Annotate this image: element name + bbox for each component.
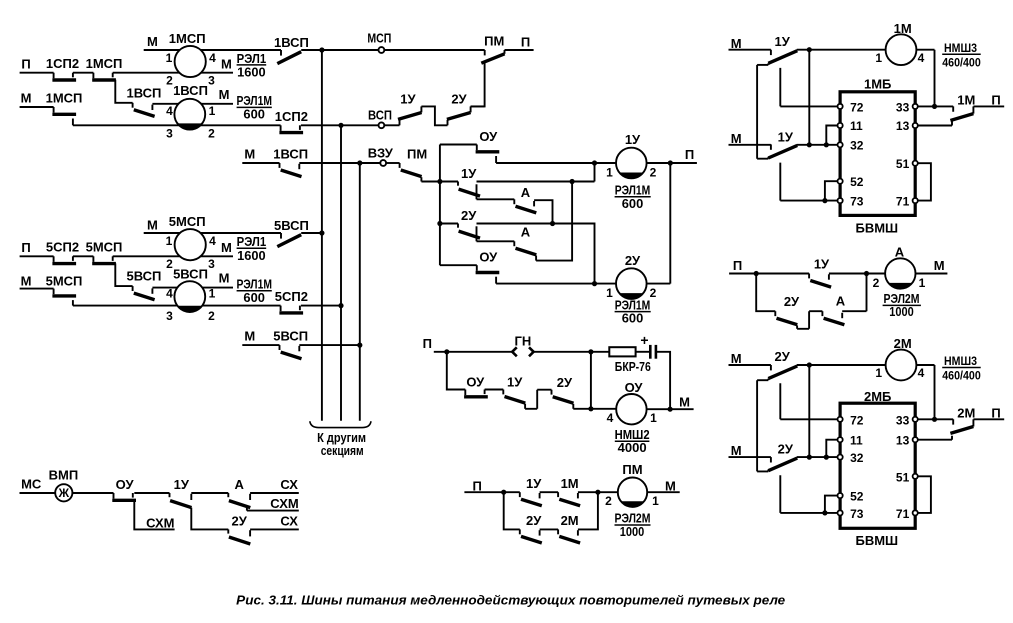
wire riser ГН row to relay ОУ row [590, 352, 592, 409]
svg-text:РЭЛ2М: РЭЛ2М [615, 512, 651, 526]
relay 1У coil (slow) [616, 148, 647, 179]
wire П row 1СП2/1МСП [20, 72, 54, 74]
svg-text:1У: 1У [625, 132, 641, 147]
wire МСП bus row to terminal [322, 49, 378, 51]
wire 1У upper branch to relay riser [477, 181, 595, 183]
wire 2У to 2М [540, 528, 559, 530]
svg-text:БКР-76: БКР-76 [615, 360, 651, 374]
wire pin 33 row block2 [915, 419, 953, 424]
svg-text:+: + [640, 332, 648, 348]
wire rail stub lower block2 [757, 470, 768, 472]
wire ПМ contact to ladder feed node [421, 181, 440, 183]
svg-text:РЭЛ1: РЭЛ1 [237, 52, 267, 66]
bus ВЗУ vertical [359, 163, 361, 421]
svg-text:1У: 1У [400, 92, 416, 107]
svg-text:М: М [731, 351, 742, 366]
wire П line block 2МБ [973, 418, 1004, 420]
svg-text:ОУ: ОУ [625, 380, 644, 395]
fraction bar РЭЛ1/1600 g5 [237, 247, 267, 249]
wire ВСП bus row to terminal [341, 124, 378, 126]
svg-text:А: А [521, 225, 531, 240]
contact 1МСП (closed, М row) [52, 107, 76, 125]
svg-text:МСП: МСП [367, 31, 391, 46]
node bus ВЗУ row 1 [357, 160, 362, 165]
node pin 33 row [932, 104, 937, 109]
wire М row 1МСП [20, 106, 54, 108]
node relay ПМ input [595, 490, 600, 495]
svg-text:1: 1 [875, 51, 882, 65]
svg-text:М: М [221, 240, 232, 255]
contact 2У (transfer) ladder [458, 224, 480, 242]
svg-text:ОУ: ОУ [479, 129, 498, 144]
pin 51 block 1МБ [913, 161, 918, 166]
wire М row to 2У upper contact [729, 364, 771, 366]
svg-text:1: 1 [209, 287, 216, 301]
wire М 5ВСП row [242, 344, 279, 346]
svg-text:П: П [21, 240, 30, 255]
svg-text:НМШ3: НМШ3 [944, 354, 977, 368]
wire А exit to riser [842, 274, 866, 312]
wire 1МСП contact to coil pin 2 and М terminal [113, 72, 233, 74]
contact ОУ (closed) МС row [112, 493, 136, 500]
contact ОУ (closed) ГН row [464, 390, 488, 397]
svg-text:М: М [21, 274, 32, 289]
wire 1ВСП contact to bus ВЗУ [299, 162, 360, 164]
node relay 2У input [592, 281, 597, 286]
svg-text:1МСП: 1МСП [86, 56, 123, 71]
node pin 32 row a [807, 142, 812, 147]
svg-text:4: 4 [918, 51, 925, 65]
wire А lower to СХМ [247, 507, 299, 510]
wire МС to lamp ВМП [20, 492, 114, 494]
svg-text:4: 4 [166, 104, 173, 118]
node П rail relay 1У [668, 160, 673, 165]
svg-text:М: М [244, 147, 255, 162]
wire МСП terminal to ПМ contact [385, 49, 485, 51]
wire 2М to riser [578, 492, 598, 529]
svg-text:СХМ: СХМ [270, 496, 298, 511]
fraction bar РЭЛ1М/600 relay 1У [615, 196, 651, 198]
wire 1У armature to relay 1М row [797, 49, 886, 51]
contact ПМ (transfer) on МСП row [481, 50, 504, 63]
node ladder feed [437, 179, 442, 184]
svg-text:3: 3 [166, 127, 173, 141]
wire П to ПМ block [464, 491, 519, 493]
svg-text:ПМ: ПМ [484, 34, 504, 49]
wire pin 11 link block2 [826, 440, 840, 457]
wire П to ГН row [434, 351, 512, 353]
pin 33 block 2МБ [913, 417, 918, 422]
svg-text:ПМ: ПМ [407, 146, 427, 161]
svg-text:М: М [731, 36, 742, 51]
svg-text:2МБ: 2МБ [864, 389, 891, 404]
wire 5ВСП contact to bus МСП [301, 232, 322, 234]
fraction bar РЭЛ2М/1000 А [883, 304, 921, 306]
svg-text:Рис. 3.11. Шины питания медлен: Рис. 3.11. Шины питания медленнодействую… [236, 593, 785, 608]
svg-text:П: П [473, 478, 482, 493]
node bus МСП row 5 [319, 230, 324, 235]
svg-text:3: 3 [166, 309, 173, 323]
svg-text:52: 52 [850, 490, 864, 504]
pin 33 block 1МБ [913, 104, 918, 109]
contact 5ВСП (front) to МСП bus [277, 233, 301, 247]
svg-text:1ВСП: 1ВСП [126, 85, 161, 100]
node bus МСП row 1 [319, 47, 324, 52]
svg-text:ВМП: ВМП [49, 467, 79, 482]
svg-text:460/400: 460/400 [942, 55, 981, 69]
contact А (back) upper ladder [514, 199, 536, 213]
svg-text:1У: 1У [461, 166, 477, 181]
pin 52 block 1МБ [838, 179, 843, 184]
fraction bar РЭЛ1М/600 g5 [237, 290, 272, 292]
wire pin 51 to pin 71 bracket block2 [915, 476, 931, 513]
svg-text:2У: 2У [526, 513, 542, 528]
wire ОУ branch to СХМ stub [134, 501, 174, 529]
svg-text:П: П [991, 92, 1000, 107]
wire А exit up to 1У branch [536, 182, 572, 261]
contact 1У (transfer) lower block 1МБ [768, 144, 797, 158]
wire А exit down to 2У row [534, 200, 552, 223]
svg-text:РЭЛ1М: РЭЛ1М [236, 278, 272, 292]
relay 2М coil [886, 350, 917, 381]
svg-text:А: А [521, 185, 531, 200]
svg-text:71: 71 [896, 507, 910, 521]
svg-text:5СП2: 5СП2 [275, 289, 308, 304]
svg-text:М: М [21, 90, 32, 105]
svg-text:600: 600 [243, 107, 265, 121]
svg-text:51: 51 [896, 157, 910, 171]
wire to ОУ contact lower [440, 264, 477, 266]
wire М row to 1У upper contact [729, 49, 771, 51]
wire ВСП terminal to 1У contact [385, 124, 400, 126]
wire ВЗУ terminal to ПМ contact [387, 162, 400, 164]
wire relay ПМ to М terminal [647, 491, 680, 493]
svg-text:1ВСП: 1ВСП [173, 83, 208, 98]
svg-text:600: 600 [243, 291, 265, 305]
svg-text:4000: 4000 [618, 441, 647, 455]
svg-text:71: 71 [896, 195, 910, 209]
svg-text:2У: 2У [232, 513, 248, 528]
resistor БКР-76 box [609, 347, 635, 356]
wire armature stub to rail block2 [757, 379, 768, 381]
wire capacitor to М rail [656, 352, 670, 409]
svg-text:М: М [934, 258, 945, 273]
wire ПМ back contact down to 2У [471, 63, 485, 106]
fraction bar РЭЛ1/1600 [237, 64, 267, 66]
contact 1У (transfer) upper block 1МБ [768, 50, 797, 65]
svg-text:5МСП: 5МСП [86, 239, 123, 254]
wire М row 2 to 2У lower contact [729, 456, 771, 458]
fraction bar РЭЛ1М/600 relay 2У [615, 311, 651, 313]
wire 1У lower to pin 32 [797, 144, 840, 146]
wire relay ОУ to М terminal [647, 408, 694, 410]
svg-text:СХ: СХ [280, 477, 298, 492]
pin 13 block 1МБ [913, 123, 918, 128]
terminal ВСП [379, 122, 385, 128]
svg-text:А: А [836, 293, 846, 308]
node pin 52 link block2 [822, 510, 827, 515]
contact 2У (transfer) lower block 2МБ [768, 457, 797, 471]
svg-text:ОУ: ОУ [116, 477, 135, 492]
contact 1У (back) ГН row [503, 390, 525, 409]
wire 5СП2 to bus ВСП [301, 305, 341, 307]
wire pin 51 to pin 71 bracket [915, 163, 931, 200]
svg-text:2У: 2У [451, 92, 467, 107]
wire М row 2 to 1У lower contact [729, 144, 771, 146]
svg-text:1М: 1М [561, 476, 579, 491]
svg-text:1ВСП: 1ВСП [274, 35, 309, 50]
svg-text:П: П [733, 258, 742, 273]
contact 1ВСП (back) in 1ВСП coil row [133, 103, 155, 117]
contact 1У (front) ВСП row [398, 106, 422, 125]
block 2МБ БВМШ [840, 403, 915, 528]
contact 5МСП (closed) [92, 256, 116, 263]
wire 2У upper branch to relay 2У riser [477, 224, 595, 284]
svg-text:2: 2 [208, 127, 215, 141]
svg-text:М: М [731, 443, 742, 458]
svg-text:1: 1 [606, 165, 613, 179]
svg-text:73: 73 [850, 195, 864, 209]
wire to 1ВСП coil pin 4 and М terminal [152, 103, 233, 105]
svg-text:600: 600 [622, 312, 644, 326]
relay 1ВСП coil (slow) [174, 99, 205, 130]
svg-text:1У: 1У [778, 129, 794, 144]
svg-text:ВСП: ВСП [368, 107, 392, 122]
node bus ВЗУ row 5 [357, 343, 362, 348]
svg-text:М: М [219, 270, 230, 285]
svg-text:МС: МС [21, 476, 42, 491]
svg-text:1: 1 [875, 366, 882, 380]
svg-text:секциям: секциям [321, 444, 364, 458]
wire А upper to СХ [250, 492, 299, 494]
svg-text:1000: 1000 [889, 305, 914, 319]
contact 1У (transfer) ladder [458, 182, 480, 200]
node bus ВСП row 1 [338, 123, 343, 128]
svg-text:72: 72 [850, 413, 864, 427]
svg-text:1000: 1000 [620, 525, 645, 539]
svg-text:НМШ3: НМШ3 [944, 41, 977, 55]
wire branch down to 1ВСП front contact [115, 80, 132, 103]
svg-text:А: А [895, 244, 905, 259]
contact А (back) А relay row [822, 311, 844, 325]
svg-text:52: 52 [850, 175, 864, 189]
brace К другим секциям [310, 421, 371, 427]
fraction bar РЭЛ2М/1000 ПМ [615, 524, 651, 526]
wire 5ВСП contact to bus ВЗУ [299, 344, 360, 346]
wire ОУ contact to relay 2У [496, 283, 616, 285]
contact ГН (plug) [512, 347, 533, 356]
wire branch down to 5ВСП front contact [115, 263, 132, 286]
svg-text:2У: 2У [778, 442, 794, 457]
svg-text:5МСП: 5МСП [169, 214, 206, 229]
svg-text:1МСП: 1МСП [46, 90, 83, 105]
relay ПМ coil (slow) [618, 478, 647, 507]
svg-text:2У: 2У [557, 375, 573, 390]
contact ПМ (back) ВЗУ row [400, 163, 422, 182]
wire ОУ to 1У contact МС row [134, 492, 169, 494]
wire back contact 2У lower to pin 73 [780, 475, 840, 513]
svg-text:33: 33 [896, 100, 910, 114]
pin 11 block 2МБ [838, 437, 843, 442]
contact 1ВСП (front) to МСП bus [277, 50, 301, 64]
pin 73 block 2МБ [838, 510, 843, 515]
svg-text:5ВСП: 5ВСП [173, 266, 208, 281]
svg-text:4: 4 [209, 234, 216, 248]
pin 13 block 2МБ [913, 437, 918, 442]
fraction bar РЭЛ1М/600 [237, 106, 272, 108]
svg-text:11: 11 [850, 119, 863, 133]
pin 52 block 2МБ [838, 493, 843, 498]
wire ОУ to 1У contact [485, 389, 504, 391]
wire 1У lower branch to А [477, 198, 515, 200]
node relay ОУ input [588, 406, 593, 411]
svg-text:ВЗУ: ВЗУ [368, 146, 394, 161]
svg-text:1М: 1М [957, 92, 975, 107]
wire 2У to СХ lower [250, 528, 299, 530]
wire ladder left vertical [439, 145, 441, 266]
node pin 32 row block2 b [824, 455, 829, 460]
fraction bar НМШ3 b1 [942, 53, 981, 55]
terminal ВЗУ [380, 160, 386, 166]
svg-text:М: М [679, 394, 690, 409]
contact 5СП2 (closed) [52, 256, 76, 263]
svg-text:РЭЛ1: РЭЛ1 [237, 235, 267, 249]
wire back contact 1У lower to pin 73 [780, 163, 840, 201]
wire lower branch to 2У [756, 274, 775, 312]
svg-text:М: М [731, 131, 742, 146]
contact 5СП2 (closed, bus row) [279, 306, 303, 313]
svg-text:32: 32 [850, 139, 864, 153]
node relay 1У input [592, 160, 597, 165]
svg-text:РЭЛ2М: РЭЛ2М [884, 292, 920, 306]
bus ВСП vertical [340, 125, 342, 420]
node pin 33 row block2 [932, 417, 937, 422]
pin 72 block 1МБ [838, 104, 843, 109]
svg-text:П: П [21, 56, 30, 71]
svg-text:11: 11 [850, 434, 863, 448]
wire БКР box to capacitor [636, 351, 651, 353]
contact 2У (back) ГН row [552, 390, 574, 409]
node relay ОУ output М [668, 407, 673, 412]
contact 1М (back) ПМ row [558, 492, 580, 506]
svg-text:ГН: ГН [515, 333, 532, 348]
wire 2У lower branch to А [477, 240, 515, 242]
svg-text:1У: 1У [814, 257, 830, 272]
node pin 32 row b [824, 142, 829, 147]
contact 1У (back) А relay row [809, 274, 831, 288]
svg-text:РЭЛ1М: РЭЛ1М [615, 298, 651, 312]
wire to ОУ contact upper [440, 144, 477, 146]
node А to 2У row [550, 221, 555, 226]
svg-text:5СП2: 5СП2 [46, 239, 79, 254]
svg-text:1У: 1У [526, 476, 542, 491]
wire ПМ contact to П terminal [505, 49, 534, 51]
svg-text:1МСП: 1МСП [169, 31, 206, 46]
wire 2У common row [440, 223, 458, 225]
wire relay 1У to П rail [647, 162, 697, 164]
wire 1М to relay ПМ [578, 491, 618, 493]
wire between 1СП2 and 1МСП [73, 72, 94, 74]
relay 1МСП coil [175, 46, 206, 77]
wire П line block 1МБ [973, 105, 1004, 107]
svg-text:13: 13 [896, 434, 910, 448]
wire 1У exit dip and riser [525, 390, 551, 409]
wire long row to 1СП2 and bus ВСП [73, 124, 281, 126]
contact ОУ (closed) relay 1У row [476, 145, 500, 164]
pin 51 block 2МБ [913, 474, 918, 479]
node П А relay block [754, 271, 759, 276]
contact А (transfer) МС row [228, 493, 250, 508]
wire relay 2У to П rail [647, 283, 671, 285]
node pin 32 row block2 a [807, 455, 812, 460]
svg-text:5МСП: 5МСП [46, 274, 83, 289]
svg-text:460/400: 460/400 [942, 369, 981, 383]
svg-text:5ВСП: 5ВСП [273, 329, 308, 344]
contact 2М (transfer) to П [950, 419, 973, 433]
node relay 1М row [807, 47, 812, 52]
node П ГН row [444, 349, 449, 354]
svg-text:М: М [221, 56, 232, 71]
contact 1ВСП (back) М row [280, 163, 302, 177]
contact 2М (back) ПМ row [558, 529, 580, 543]
svg-text:М: М [244, 329, 255, 344]
svg-text:2М: 2М [894, 336, 912, 351]
svg-text:1: 1 [166, 234, 173, 248]
wire rail stub lower [757, 157, 768, 159]
svg-text:4: 4 [607, 411, 614, 425]
svg-text:М: М [147, 217, 158, 232]
svg-text:2М: 2М [561, 513, 579, 528]
wire ОУ contact to relay 1У [496, 162, 616, 164]
contact 1У (transfer) МС row [170, 493, 192, 508]
wire 1МСП coil top row М [144, 49, 281, 51]
svg-text:1: 1 [652, 494, 659, 508]
svg-text:1600: 1600 [237, 66, 266, 80]
node П ПМ block [501, 490, 506, 495]
svg-text:3: 3 [208, 257, 215, 271]
svg-text:2У: 2У [461, 208, 477, 223]
wire armature stub to rail [757, 64, 768, 66]
pin 73 block 1МБ [838, 198, 843, 203]
wire 5МСП contact to coil pin 2 and М terminal [113, 255, 233, 257]
fraction bar НМШ2/4000 [615, 440, 650, 442]
contact 2У (front) ВСП row [447, 106, 471, 125]
relay А coil (slow) [885, 258, 915, 288]
wire 2У lower to pin 32 [797, 456, 840, 458]
svg-text:1МБ: 1МБ [864, 77, 891, 92]
pin 32 block 1МБ [838, 142, 843, 147]
contact 1М (transfer) to П [950, 106, 973, 120]
svg-text:1У: 1У [174, 477, 190, 492]
node ГН row riser [588, 349, 593, 354]
wire to 5ВСП coil pin 4 and М terminal [152, 287, 233, 289]
svg-text:2У: 2У [775, 349, 791, 364]
contact 1У (back) ПМ row [520, 492, 542, 506]
wire back contact 1У upper to pin 72 [780, 68, 840, 107]
svg-text:2: 2 [650, 165, 657, 179]
svg-text:2: 2 [873, 276, 880, 290]
pin 32 block 2МБ [838, 455, 843, 460]
wire П row 5СП2/5МСП [20, 255, 54, 257]
svg-text:2М: 2М [957, 405, 975, 420]
contact А (back) lower ladder [514, 241, 536, 260]
wire riser to relay 1У row [594, 163, 596, 182]
wire 1ВСП contact to bus МСП [301, 49, 322, 51]
svg-text:П: П [521, 35, 530, 50]
svg-text:НМШ2: НМШ2 [615, 428, 650, 442]
wire branch П down to ОУ chain [447, 352, 466, 390]
wire left rail 1У contacts [756, 65, 758, 159]
